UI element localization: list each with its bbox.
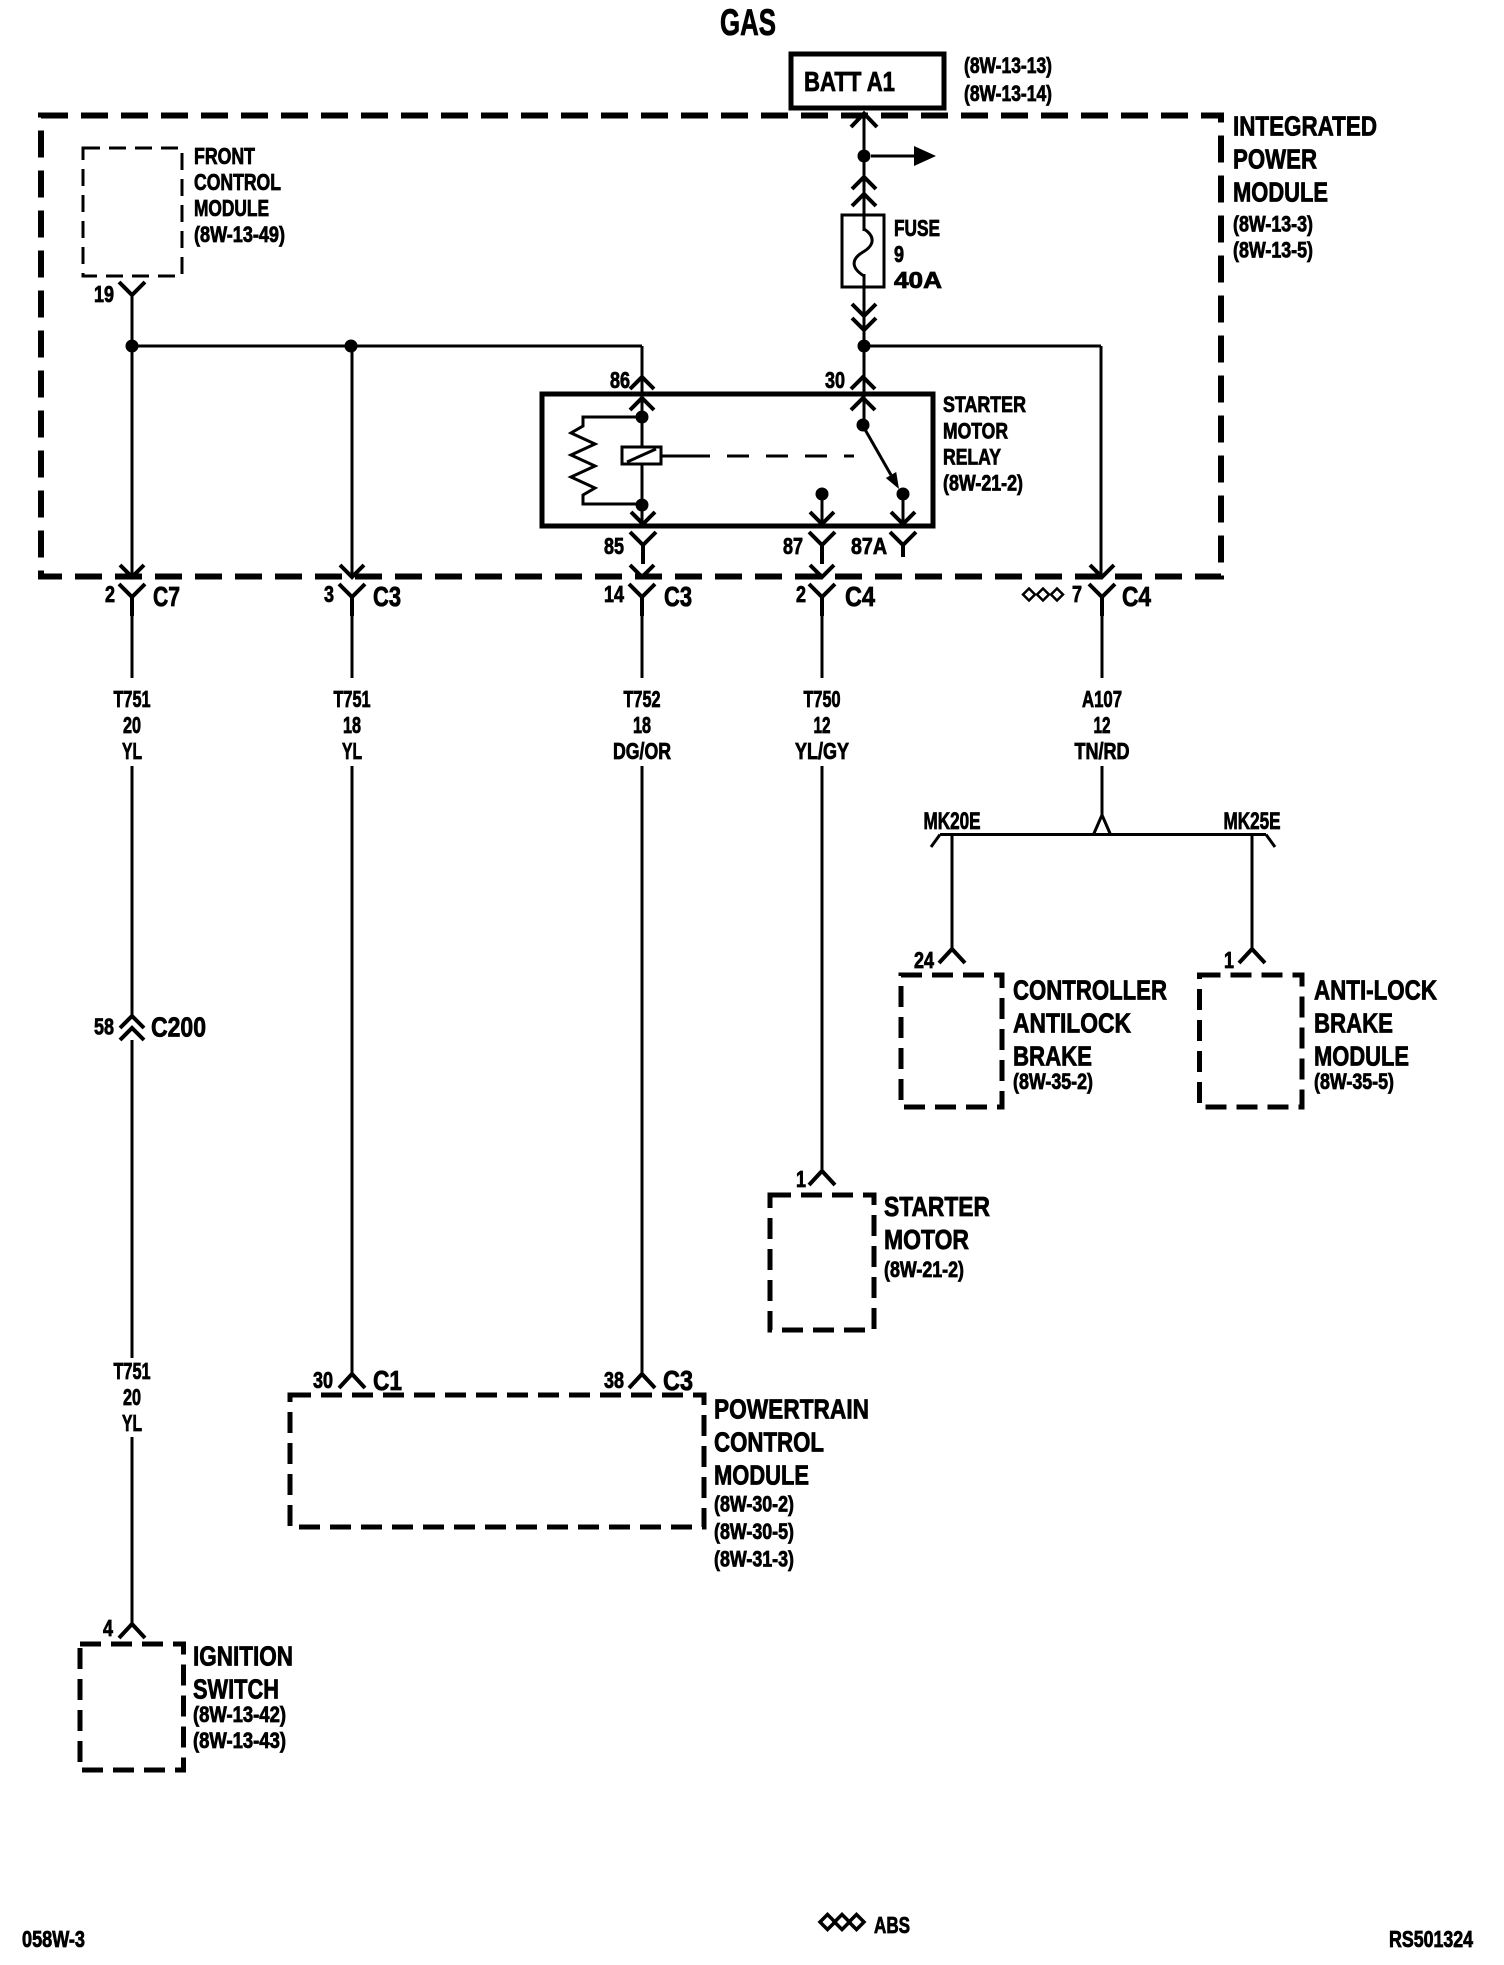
svg-text:4: 4 [103,1615,113,1641]
svg-text:DG/OR: DG/OR [613,738,671,764]
svg-text:GAS: GAS [720,2,776,43]
svg-text:C4: C4 [1122,581,1151,612]
svg-text:86: 86 [610,367,630,393]
svg-text:87A: 87A [851,533,887,559]
svg-text:(8W-21-2): (8W-21-2) [943,471,1023,496]
svg-text:MOTOR: MOTOR [884,1224,969,1255]
svg-text:STARTER: STARTER [884,1191,990,1222]
svg-text:38: 38 [604,1367,624,1393]
svg-text:YL: YL [122,738,142,764]
svg-text:ABS: ABS [874,1912,910,1938]
svg-text:POWERTRAIN: POWERTRAIN [714,1393,869,1424]
svg-text:C3: C3 [373,581,401,612]
svg-text:MODULE: MODULE [194,195,269,221]
svg-text:85: 85 [604,533,624,559]
svg-text:C7: C7 [153,581,180,612]
svg-text:(8W-13-43): (8W-13-43) [193,1728,286,1753]
svg-text:YL: YL [122,1410,142,1436]
svg-text:T751: T751 [114,1358,151,1384]
svg-text:(8W-30-5): (8W-30-5) [714,1519,794,1544]
svg-text:3: 3 [324,581,334,607]
svg-text:YL: YL [342,738,362,764]
svg-text:(8W-13-49): (8W-13-49) [194,222,285,247]
svg-text:T751: T751 [114,686,151,712]
svg-text:C4: C4 [845,581,875,612]
svg-text:12: 12 [1094,712,1111,738]
svg-text:T750: T750 [804,686,841,712]
svg-text:BRAKE: BRAKE [1013,1040,1092,1071]
svg-text:MODULE: MODULE [1314,1040,1409,1071]
svg-text:ANTILOCK: ANTILOCK [1013,1007,1131,1038]
svg-text:(8W-13-14): (8W-13-14) [964,81,1052,106]
svg-text:058W-3: 058W-3 [22,1926,85,1952]
svg-text:C200: C200 [151,1012,206,1043]
svg-text:A107: A107 [1082,686,1122,712]
svg-text:BRAKE: BRAKE [1314,1007,1393,1038]
svg-text:20: 20 [123,1384,141,1410]
svg-text:FUSE: FUSE [894,215,940,241]
svg-text:C3: C3 [663,1365,693,1396]
svg-text:(8W-31-3): (8W-31-3) [714,1547,794,1572]
svg-text:CONTROLLER: CONTROLLER [1013,974,1167,1005]
svg-text:30: 30 [825,367,845,393]
svg-text:(8W-35-5): (8W-35-5) [1314,1069,1394,1094]
svg-text:2: 2 [105,581,115,607]
svg-text:MODULE: MODULE [1233,176,1328,207]
svg-text:(8W-21-2): (8W-21-2) [884,1257,964,1282]
svg-text:C3: C3 [664,581,692,612]
svg-text:POWER: POWER [1233,143,1317,174]
svg-text:20: 20 [123,712,141,738]
svg-text:CONTROL: CONTROL [714,1426,824,1457]
svg-text:(8W-13-5): (8W-13-5) [1233,238,1313,263]
svg-text:9: 9 [894,241,904,267]
svg-text:24: 24 [914,947,934,973]
svg-text:30: 30 [313,1367,333,1393]
svg-text:YL/GY: YL/GY [795,738,849,764]
svg-text:ANTI-LOCK: ANTI-LOCK [1314,974,1437,1005]
svg-text:(8W-30-2): (8W-30-2) [714,1492,794,1517]
svg-text:IGNITION: IGNITION [193,1640,293,1671]
svg-text:1: 1 [796,1166,806,1192]
svg-text:T752: T752 [624,686,661,712]
svg-text:(8W-13-3): (8W-13-3) [1233,212,1313,237]
svg-text:(8W-13-42): (8W-13-42) [193,1702,286,1727]
svg-text:TN/RD: TN/RD [1075,738,1130,764]
svg-text:40A: 40A [894,267,942,293]
svg-text:MK20E: MK20E [924,808,981,835]
svg-text:58: 58 [94,1014,114,1040]
svg-text:RELAY: RELAY [943,445,1001,470]
svg-text:INTEGRATED: INTEGRATED [1233,110,1377,141]
svg-text:19: 19 [94,281,114,307]
svg-text:BATT A1: BATT A1 [804,66,895,97]
svg-text:18: 18 [633,712,651,738]
svg-text:1: 1 [1224,947,1234,973]
svg-text:MK25E: MK25E [1224,808,1281,835]
svg-text:SWITCH: SWITCH [193,1673,279,1704]
svg-text:FRONT: FRONT [194,143,255,169]
svg-text:7: 7 [1072,581,1082,607]
svg-text:14: 14 [604,581,624,607]
svg-text:CONTROL: CONTROL [194,169,281,195]
svg-text:T751: T751 [334,686,371,712]
svg-text:87: 87 [783,533,803,559]
svg-text:18: 18 [343,712,361,738]
svg-text:RS501324: RS501324 [1389,1926,1473,1952]
svg-text:12: 12 [814,712,831,738]
svg-text:2: 2 [796,581,806,607]
svg-text:MOTOR: MOTOR [943,419,1008,444]
svg-text:(8W-13-13): (8W-13-13) [964,53,1052,78]
svg-text:STARTER: STARTER [943,392,1026,417]
svg-text:C1: C1 [373,1365,402,1396]
svg-text:MODULE: MODULE [714,1459,809,1490]
svg-text:(8W-35-2): (8W-35-2) [1013,1069,1093,1094]
